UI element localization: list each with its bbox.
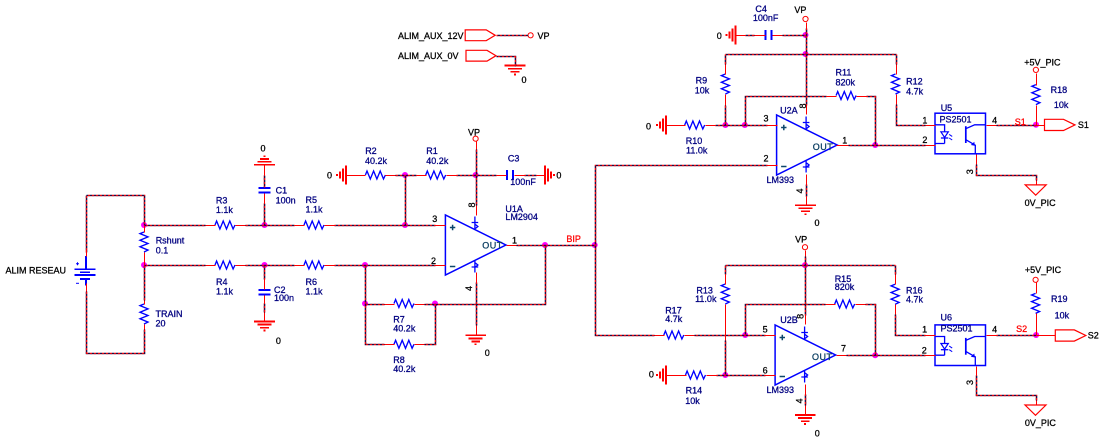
svg-text:1.1k: 1.1k	[216, 287, 234, 297]
svg-text:3: 3	[432, 214, 437, 224]
svg-text:10k: 10k	[685, 396, 700, 406]
svg-text:7: 7	[841, 344, 846, 354]
svg-text:BIP: BIP	[566, 234, 581, 244]
svg-text:0: 0	[717, 31, 722, 41]
svg-text:U5: U5	[941, 103, 953, 113]
svg-text:R10: R10	[686, 136, 703, 146]
svg-text:4: 4	[992, 115, 997, 125]
svg-text:S2: S2	[1016, 324, 1027, 334]
svg-text:8: 8	[796, 314, 806, 319]
svg-text:100nF: 100nF	[510, 177, 536, 187]
svg-text:Rshunt: Rshunt	[156, 235, 185, 245]
svg-text:1: 1	[922, 115, 927, 125]
svg-text:820k: 820k	[835, 282, 855, 292]
svg-text:OUT: OUT	[482, 241, 503, 251]
svg-text:R18: R18	[1051, 85, 1068, 95]
svg-text:U2A: U2A	[780, 106, 798, 116]
svg-text:ALIM RESEAU: ALIM RESEAU	[6, 266, 67, 276]
svg-text:ALIM_AUX_12V: ALIM_AUX_12V	[398, 31, 464, 41]
svg-text:4: 4	[464, 286, 474, 291]
svg-text:100n: 100n	[276, 196, 296, 206]
svg-text:PS2501: PS2501	[940, 114, 972, 124]
svg-text:C1: C1	[276, 186, 288, 196]
svg-text:R11: R11	[836, 67, 852, 77]
svg-text:3: 3	[965, 169, 975, 174]
svg-text:4.7k: 4.7k	[906, 86, 924, 96]
svg-text:R5: R5	[306, 195, 318, 205]
svg-text:+5V_PIC: +5V_PIC	[1024, 58, 1061, 68]
svg-text:S1: S1	[1015, 117, 1026, 127]
svg-text:0: 0	[261, 144, 266, 154]
svg-text:10k: 10k	[1054, 100, 1069, 110]
svg-text:R9: R9	[696, 75, 708, 85]
svg-text:10k: 10k	[695, 86, 710, 96]
svg-text:40.2k: 40.2k	[393, 324, 416, 334]
svg-text:1.1k: 1.1k	[306, 287, 324, 297]
svg-text:+5V_PIC: +5V_PIC	[1025, 265, 1062, 275]
svg-text:2: 2	[922, 135, 927, 145]
svg-text:R1: R1	[426, 146, 438, 156]
svg-text:10k: 10k	[1055, 310, 1070, 320]
svg-text:R4: R4	[216, 277, 228, 287]
svg-text:8: 8	[798, 103, 808, 108]
svg-text:1.1k: 1.1k	[216, 205, 234, 215]
svg-text:3: 3	[965, 380, 975, 385]
svg-text:0.1: 0.1	[156, 245, 169, 255]
svg-text:OUT: OUT	[813, 142, 834, 152]
svg-text:VP: VP	[538, 31, 550, 41]
svg-text:1.1k: 1.1k	[306, 205, 324, 215]
svg-text:11.0k: 11.0k	[686, 146, 708, 156]
svg-text:0: 0	[815, 218, 820, 228]
svg-text:5: 5	[763, 324, 768, 334]
svg-text:TRAIN: TRAIN	[156, 309, 183, 319]
svg-text:VP: VP	[468, 127, 480, 137]
svg-text:40.2k: 40.2k	[426, 156, 449, 166]
svg-text:R19: R19	[1051, 294, 1068, 304]
svg-text:4.7k: 4.7k	[906, 295, 924, 305]
svg-text:C3: C3	[508, 153, 520, 163]
svg-text:R14: R14	[686, 386, 703, 396]
svg-text:0: 0	[522, 75, 527, 85]
svg-text:2: 2	[431, 256, 436, 266]
svg-text:PS2501: PS2501	[941, 323, 973, 333]
svg-text:4: 4	[795, 188, 805, 193]
svg-text:2: 2	[922, 346, 927, 356]
svg-text:8: 8	[467, 202, 477, 207]
svg-text:R12: R12	[906, 76, 923, 86]
svg-text:4: 4	[992, 324, 997, 334]
svg-text:0V_PIC: 0V_PIC	[1025, 198, 1057, 208]
svg-text:1: 1	[922, 324, 927, 334]
svg-text:4: 4	[795, 398, 805, 403]
svg-text:VP: VP	[794, 5, 806, 15]
svg-text:4.7k: 4.7k	[665, 314, 683, 324]
svg-text:11.0k: 11.0k	[695, 294, 717, 304]
svg-text:0V_PIC: 0V_PIC	[1025, 418, 1057, 428]
svg-text:820k: 820k	[836, 77, 856, 87]
svg-text:3: 3	[763, 114, 768, 124]
svg-text:0: 0	[327, 171, 332, 181]
svg-text:2: 2	[763, 154, 768, 164]
svg-text:LM393: LM393	[767, 385, 795, 395]
svg-text:1: 1	[512, 235, 517, 245]
svg-text:LM393: LM393	[767, 175, 795, 185]
svg-text:OUT: OUT	[812, 352, 833, 362]
svg-text:S2: S2	[1088, 331, 1099, 341]
svg-text:0: 0	[556, 171, 561, 181]
svg-text:6: 6	[763, 366, 768, 376]
svg-text:0: 0	[649, 370, 654, 380]
svg-text:R3: R3	[216, 196, 228, 206]
svg-text:100n: 100n	[274, 293, 294, 303]
svg-text:0: 0	[485, 348, 490, 358]
svg-text:40.2k: 40.2k	[365, 156, 388, 166]
svg-text:0: 0	[815, 429, 820, 439]
svg-text:R2: R2	[365, 146, 377, 156]
svg-text:0: 0	[646, 122, 651, 132]
svg-text:VP: VP	[795, 234, 807, 244]
svg-text:40.2k: 40.2k	[393, 364, 416, 374]
svg-text:S1: S1	[1078, 120, 1089, 130]
svg-text:LM2904: LM2904	[505, 212, 538, 222]
svg-text:ALIM_AUX_0V: ALIM_AUX_0V	[398, 51, 459, 61]
svg-text:100nF: 100nF	[753, 13, 779, 23]
svg-text:R6: R6	[306, 277, 318, 287]
svg-text:U6: U6	[941, 313, 953, 323]
svg-text:0: 0	[276, 336, 281, 346]
svg-text:1: 1	[842, 135, 847, 145]
svg-text:20: 20	[156, 319, 166, 329]
